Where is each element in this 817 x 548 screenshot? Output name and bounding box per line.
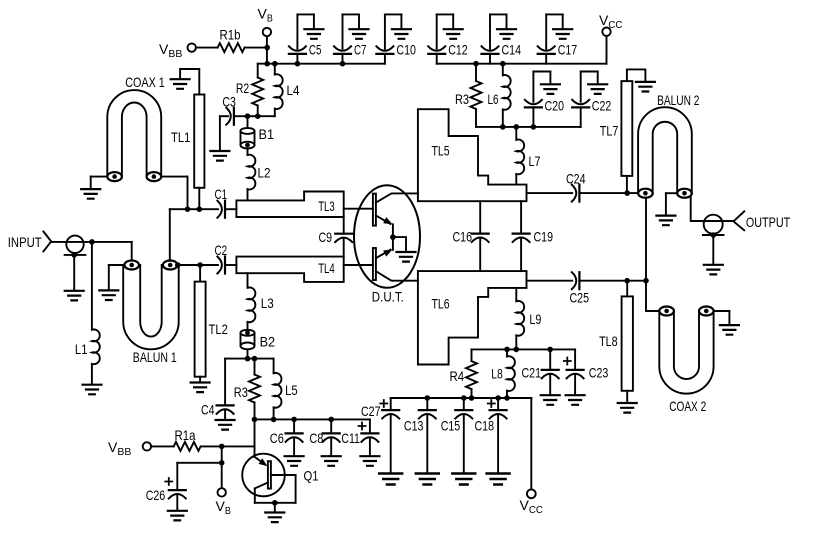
capacitor C4 — [201, 359, 234, 419]
transmission line TL6 — [418, 271, 527, 364]
node DUT emitter — [390, 224, 396, 250]
capacitor C15 — [441, 395, 473, 472]
terminal VCC (bottom) — [520, 398, 544, 516]
terminal VB (top) — [258, 6, 273, 37]
svg-text:L4: L4 — [287, 82, 300, 98]
svg-text:R1b: R1b — [220, 27, 241, 43]
transmission line TL2 — [195, 265, 228, 377]
DUT ellipse — [354, 185, 420, 304]
resistor R1a — [151, 427, 254, 451]
terminal VCC (top) — [599, 12, 623, 36]
transistor Q1 — [242, 419, 318, 505]
ferrite bead B2 — [241, 330, 276, 359]
ground (C22) — [588, 84, 607, 94]
svg-text:INPUT: INPUT — [8, 234, 42, 250]
wire bias row — [252, 417, 370, 423]
balun BALUN 2 — [638, 92, 699, 198]
svg-text:COAX 2: COAX 2 — [669, 398, 706, 414]
svg-text:R2: R2 — [236, 80, 249, 96]
capacitor C5 — [289, 14, 322, 66]
inductor L8 — [491, 349, 515, 398]
wire BALUN2 to OUTPUT — [691, 197, 734, 222]
ground (OUTPUT) — [704, 235, 723, 274]
svg-text:C17: C17 — [558, 42, 578, 58]
capacitor C8 — [309, 417, 339, 456]
svg-text:C19: C19 — [534, 229, 554, 245]
ground (C11) — [360, 456, 379, 466]
capacitor C27 — [361, 398, 399, 473]
wire TL4 to DUT base — [344, 264, 373, 266]
capacitor C17 — [538, 14, 578, 63]
ground (TL8) — [618, 391, 637, 413]
svg-text:TL8: TL8 — [599, 333, 618, 349]
ground (Q1) — [265, 503, 284, 522]
svg-text:B2: B2 — [260, 334, 276, 350]
transmission line TL7 — [600, 81, 633, 176]
svg-text:BALUN 1: BALUN 1 — [133, 349, 177, 365]
svg-text:C16: C16 — [453, 229, 473, 245]
ground (C20) — [541, 84, 560, 94]
svg-text:C26: C26 — [146, 487, 166, 503]
ferrite bead B1 — [241, 116, 275, 148]
capacitor C1 — [215, 186, 237, 218]
resistor R4 — [450, 349, 478, 398]
transmission line TL4 — [236, 257, 343, 282]
svg-text:TL4: TL4 — [318, 260, 335, 276]
ground (C10) — [392, 29, 411, 39]
capacitor C13 — [404, 395, 436, 472]
terminal VBB (top) — [159, 41, 196, 60]
capacitor C21 — [522, 349, 559, 394]
coax COAX 1 — [107, 74, 165, 181]
wire L9 bottom row — [472, 347, 576, 353]
capacitor C25 — [527, 272, 647, 305]
svg-text:C13: C13 — [404, 418, 424, 434]
svg-text:C25: C25 — [570, 290, 590, 306]
ground (INPUT) — [65, 255, 84, 301]
svg-text:C15: C15 — [441, 418, 461, 434]
inductor L4 — [272, 61, 300, 116]
svg-text:B1: B1 — [259, 126, 275, 142]
wire TL3 to DUT base — [344, 208, 373, 210]
svg-text:TL2: TL2 — [209, 321, 228, 337]
svg-text:L9: L9 — [529, 311, 541, 327]
svg-text:C10: C10 — [396, 42, 416, 58]
balun BALUN 1 — [123, 242, 180, 365]
ground (BALUN2) — [656, 193, 677, 225]
svg-text:C24: C24 — [566, 171, 586, 187]
svg-text:Q1: Q1 — [304, 468, 319, 484]
capacitor C23 — [564, 349, 609, 394]
capacitor C22 — [572, 72, 611, 127]
svg-text:OUTPUT: OUTPUT — [746, 214, 791, 230]
svg-text:C21: C21 — [522, 365, 542, 381]
wire COAX1 right to C1 node — [161, 177, 187, 210]
inductor L6 — [488, 61, 511, 127]
resistor R2 — [236, 64, 263, 116]
capacitor C9 — [319, 217, 353, 257]
wire VCC bottom rail — [391, 395, 532, 401]
transmission line TL8 — [599, 281, 633, 391]
ground (C18) — [487, 474, 510, 485]
wire TL1 bottom — [198, 188, 200, 209]
ground (L1) — [83, 385, 102, 395]
ground (C7) — [350, 29, 369, 39]
svg-text:C6: C6 — [270, 430, 284, 446]
svg-text:C2: C2 — [215, 242, 228, 258]
svg-text:R3: R3 — [234, 384, 248, 400]
capacitor C6 — [270, 417, 303, 456]
transmission line TL5 — [418, 109, 527, 201]
svg-text:L6: L6 — [488, 91, 499, 107]
resistor R1b — [196, 27, 267, 53]
transistor DUT top half — [373, 193, 418, 225]
svg-text:TL5: TL5 — [432, 143, 450, 159]
svg-text:TL6: TL6 — [432, 296, 450, 312]
svg-text:TL7: TL7 — [600, 123, 619, 139]
svg-text:R4: R4 — [450, 368, 465, 384]
capacitor C12 — [428, 14, 468, 63]
inductor L7 — [516, 127, 540, 185]
wire R3/L6 bottom row — [476, 124, 581, 130]
ground (C4) — [216, 420, 235, 430]
ground (C13) — [416, 474, 439, 485]
inductor L3 — [248, 273, 274, 330]
ground (TL1 top) — [171, 69, 200, 95]
inductor L9 — [516, 288, 541, 350]
ground (DUT) — [393, 237, 416, 262]
terminal VB (bottom) — [216, 488, 231, 517]
capacitor C2 — [215, 242, 237, 274]
svg-text:TL1: TL1 — [171, 129, 190, 145]
svg-text:C9: C9 — [319, 229, 333, 245]
ground (COAX1 left) — [81, 177, 107, 199]
inductor L5 — [274, 359, 298, 420]
ground (BALUN1 left) — [99, 265, 123, 300]
capacitor C19 — [513, 201, 554, 271]
ground (C15) — [452, 474, 475, 485]
wire balun1 to C2 row — [179, 262, 218, 268]
ground (C3 left) — [210, 116, 229, 160]
transmission line TL3 — [236, 192, 343, 218]
transmission line TL1 — [171, 95, 204, 188]
ground (COAX2) — [714, 311, 739, 335]
ground (C21) — [541, 395, 560, 405]
svg-text:R1a: R1a — [175, 427, 196, 443]
node R1a junction — [219, 444, 225, 488]
svg-text:C23: C23 — [589, 365, 609, 381]
capacitor C24 — [527, 171, 639, 202]
svg-text:COAX 1: COAX 1 — [125, 74, 165, 90]
capacitor C3 — [220, 94, 248, 125]
svg-text:C1: C1 — [215, 186, 228, 202]
node INPUT junction — [89, 239, 95, 245]
inductor L1 — [75, 242, 100, 384]
ground (C27) — [379, 474, 402, 485]
OUTPUT connector — [703, 211, 791, 237]
svg-text:L7: L7 — [529, 153, 541, 169]
svg-text:C20: C20 — [545, 98, 565, 114]
wire TL7 bottom — [626, 176, 628, 193]
wire B2 bottom row — [225, 356, 274, 362]
ground (C5) — [304, 29, 323, 39]
svg-text:C4: C4 — [201, 402, 215, 418]
svg-text:L8: L8 — [491, 366, 503, 382]
capacitor C26 — [146, 463, 222, 510]
svg-text:C18: C18 — [475, 418, 495, 434]
coax COAX 2 — [659, 307, 713, 415]
svg-text:C5: C5 — [309, 42, 322, 58]
wire balun1 to C1 row — [170, 206, 218, 260]
svg-text:C7: C7 — [354, 42, 367, 58]
wire VCC rail (right) — [437, 36, 607, 64]
svg-text:L1: L1 — [75, 341, 88, 357]
svg-text:C12: C12 — [448, 42, 468, 58]
svg-text:L2: L2 — [258, 165, 271, 181]
ground (C6) — [285, 456, 304, 466]
svg-text:C8: C8 — [309, 430, 323, 446]
svg-text:C27: C27 — [361, 403, 381, 419]
ground (C14) — [497, 29, 516, 39]
wire VB to rail — [264, 36, 270, 66]
svg-text:L3: L3 — [261, 295, 274, 311]
svg-text:TL3: TL3 — [318, 198, 335, 214]
resistor R3 (bias) — [234, 359, 260, 420]
ground (C17) — [553, 29, 572, 39]
svg-text:C22: C22 — [592, 98, 612, 114]
terminal VBB (bottom) — [108, 439, 151, 458]
capacitor C20 — [525, 72, 564, 127]
svg-text:C11: C11 — [341, 430, 360, 446]
svg-text:R3: R3 — [455, 91, 469, 107]
svg-text:L5: L5 — [285, 382, 298, 398]
transistor DUT bottom half — [373, 248, 418, 281]
capacitor C11 — [341, 419, 378, 455]
inductor L2 — [248, 149, 271, 201]
wire R2/L4 bottom row — [245, 113, 275, 119]
ground (TL7 top) — [627, 69, 655, 91]
wire VB rail (left) — [258, 63, 385, 65]
svg-text:C3: C3 — [222, 94, 236, 110]
ground (C23) — [566, 395, 585, 405]
wire BALUN2 down — [643, 198, 659, 312]
ground (C12) — [444, 29, 463, 39]
ground (C26) — [168, 511, 187, 521]
resistor R3 (collector) — [455, 61, 482, 127]
svg-text:C14: C14 — [502, 42, 522, 58]
INPUT connector — [8, 232, 132, 258]
svg-text:BALUN 2: BALUN 2 — [657, 92, 699, 108]
svg-text:D.U.T.: D.U.T. — [372, 289, 404, 305]
capacitor C14 — [482, 14, 522, 63]
ground (TL2) — [191, 377, 210, 392]
capacitor C7 — [334, 14, 367, 66]
ground (C8) — [322, 456, 341, 466]
capacitor C18 — [475, 395, 507, 472]
capacitor C16 — [453, 201, 489, 271]
capacitor C10 — [376, 14, 416, 63]
